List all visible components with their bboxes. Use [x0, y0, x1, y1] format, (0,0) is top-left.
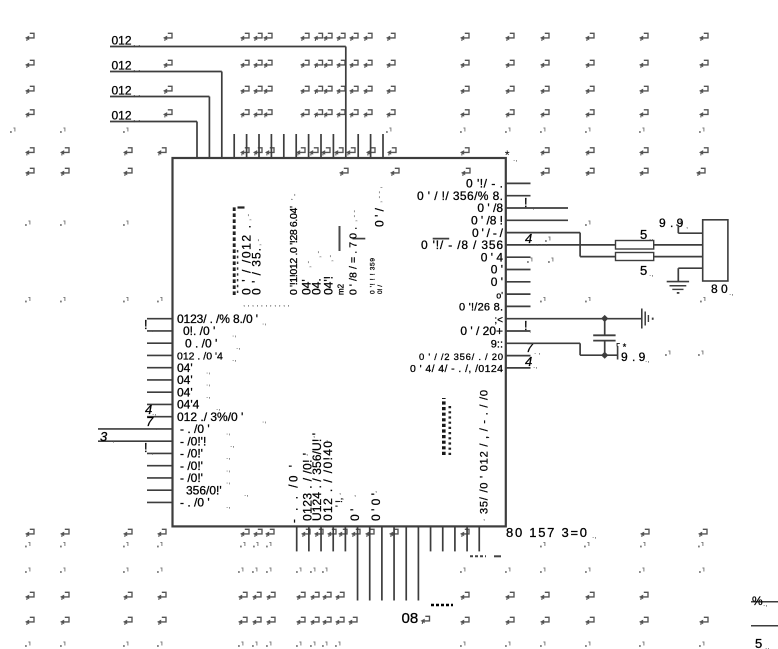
svg-text:,: ,	[506, 317, 508, 326]
overline fragment	[353, 238, 366, 240]
svg-text:.,: .,	[226, 477, 230, 486]
svg-text:0 ' / 20+: 0 ' / 20+	[460, 324, 503, 338]
svg-text:0! /: 0! /	[377, 285, 384, 294]
svg-text:.,: .,	[649, 269, 653, 278]
refdes label 80	[711, 282, 733, 297]
U1 internal column row4	[348, 227, 360, 295]
title block label 5	[755, 636, 769, 649]
svg-text:4: 4	[525, 231, 532, 246]
svg-text:0 '!1!012 .0 '!28 6.04': 0 '!1!012 .0 '!28 6.04'	[288, 206, 300, 295]
svg-text:, -: , -	[244, 214, 253, 221]
U1 internal column row3b	[310, 278, 324, 295]
junction node B	[601, 352, 608, 359]
IC U1 bottom pins	[297, 526, 480, 551]
wire J1 top stub	[678, 226, 702, 234]
svg-text:,: ,	[375, 485, 377, 494]
svg-text:,: ,	[506, 268, 508, 277]
pin number 4 (left)	[145, 402, 156, 417]
pin number 4 (right pin16)	[525, 354, 537, 370]
svg-text:,: ,	[506, 182, 508, 191]
svg-text:4: 4	[525, 354, 532, 369]
svg-text:012: 012	[112, 109, 132, 123]
svg-text:, - - ,: , - - ,	[375, 187, 384, 203]
wire pin12 to earth	[506, 318, 642, 320]
U1 internal column row5b	[377, 285, 384, 294]
IC U1 top pins	[234, 134, 383, 158]
wire net4	[110, 122, 197, 159]
U1 internal column row5c	[373, 207, 387, 227]
svg-text:- . . /0 ': - . . /0 '	[289, 465, 301, 523]
svg-text:,: ,	[506, 281, 508, 290]
svg-text:0 ': 0 '	[491, 275, 503, 289]
U1 bottom column c5	[334, 498, 344, 507]
svg-text:.,: .,	[206, 379, 210, 388]
net label 012 line4	[112, 109, 141, 124]
earth symbol (sideways)	[642, 309, 654, 329]
wire XTAL1 to C1	[506, 244, 616, 246]
U1 bottom column c4	[321, 441, 335, 521]
svg-text:0 ' / 35.: 0 ' / 35.	[250, 248, 264, 295]
U1 bottom column c7	[369, 493, 383, 521]
svg-text:.,: .,	[533, 361, 537, 370]
svg-text:, -: , -	[326, 255, 335, 262]
ground symbol (below J1)	[667, 282, 689, 294]
svg-text:, -: , -	[314, 251, 323, 258]
U1 bottom column c3	[310, 433, 324, 521]
svg-text:., . ,: ., . ,	[534, 238, 547, 247]
IC U1 left pins	[147, 319, 173, 503]
svg-text:0 '! ! ! 359: 0 '! ! ! 359	[370, 258, 377, 294]
svg-text:- . /0 ': - . /0 '	[180, 496, 210, 510]
svg-text:!: !	[524, 195, 528, 210]
gray comma row under columns	[243, 299, 290, 308]
svg-text:.,: .,	[206, 391, 210, 400]
svg-text:!: !	[524, 318, 528, 333]
wire XTAL-left A	[98, 428, 173, 430]
wire net1	[110, 47, 346, 159]
svg-text:5: 5	[640, 263, 647, 278]
svg-text:9: 9	[659, 216, 666, 230]
svg-text:o': o'	[496, 290, 503, 300]
svg-text:*: *	[505, 149, 510, 163]
IC U1 right pins	[506, 183, 568, 368]
svg-text:.,: .,	[645, 355, 649, 364]
svg-text:.,: .,	[110, 435, 114, 444]
pin number 7 (right pin15)	[526, 340, 541, 356]
svg-text:0 . /0 ': 0 . /0 '	[185, 336, 217, 350]
svg-text:.,: .,	[149, 324, 153, 333]
svg-text:.,: .,	[149, 447, 153, 456]
svg-text:,: ,	[313, 430, 315, 439]
svg-text:!: !	[144, 440, 148, 455]
svg-text:,: ,	[306, 448, 308, 457]
svg-text:' -: ' -	[290, 193, 299, 200]
svg-text:.,: .,	[592, 531, 596, 540]
svg-text:, -: , -	[304, 261, 313, 268]
U1 bottom column c6	[348, 509, 362, 521]
svg-text:5: 5	[755, 636, 762, 649]
svg-text:9: 9	[621, 350, 628, 364]
U1 bottom dense column	[444, 398, 450, 455]
IC U1 bottom bus pins	[358, 526, 419, 600]
svg-text:. ,: . ,	[534, 347, 541, 356]
label 9 . 9 (bottom)	[616, 342, 649, 364]
capacitor C1 (upper box)	[616, 241, 654, 250]
svg-text:0 ' / /2 356/ . / 20: 0 ' / /2 356/ . / 20	[419, 352, 503, 363]
svg-text:012: 012	[112, 34, 132, 48]
svg-text:,: ,	[339, 487, 341, 496]
svg-text:.,: .,	[649, 233, 653, 242]
svg-text:.,: .,	[513, 154, 517, 163]
wire J1 to ground	[678, 268, 702, 281]
svg-text:, -: , -	[254, 239, 263, 246]
marker * at U1 corner	[505, 149, 518, 164]
svg-text:.,: .,	[763, 599, 767, 608]
pin number ! (right pin3)	[524, 195, 534, 211]
gray bits above columns	[244, 187, 384, 268]
pin number ! (right pin13)	[524, 318, 531, 334]
svg-text:,: ,	[529, 325, 531, 334]
net label 012 line1	[112, 34, 141, 49]
U1 internal column row1 dense	[234, 206, 244, 295]
svg-text:.,: .,	[226, 428, 230, 437]
wire XTAL2 to C2	[506, 233, 616, 257]
svg-text:04'!: 04'!	[322, 276, 336, 295]
svg-text:.,: .,	[230, 440, 234, 449]
svg-text:,: ,	[506, 293, 508, 302]
svg-text:.,: .,	[262, 317, 266, 326]
svg-text:8 0: 8 0	[711, 282, 728, 296]
svg-text:,: ,	[506, 354, 508, 363]
svg-text:80 157 3=0: 80 157 3=0	[506, 525, 587, 540]
svg-text:,: ,	[506, 330, 508, 339]
U1 internal column row2	[288, 206, 300, 295]
svg-text:0 ' /8 / = . 7 0 .: 0 ' /8 / = . 7 0 .	[348, 227, 360, 295]
capacitor C3	[593, 335, 615, 340]
U1 internal column row3d	[337, 226, 346, 295]
part number 80 157 3=0	[506, 525, 596, 540]
U1 internal column row5a	[370, 258, 377, 294]
U1 bottom column c8	[479, 390, 491, 514]
svg-text:.,: .,	[729, 288, 733, 297]
svg-text:.,: .,	[232, 330, 236, 339]
svg-text:,: ,	[506, 194, 508, 203]
value label 5 (lower)	[640, 263, 653, 278]
capacitor C2 (lower box)	[616, 253, 654, 261]
svg-text:, - -: , - -	[350, 210, 359, 222]
svg-text:%: %	[752, 594, 763, 608]
title block line2	[751, 625, 778, 627]
svg-text:.,: .,	[232, 354, 236, 363]
tick marks under pin row	[470, 555, 501, 557]
svg-text:0 ' 0 ': 0 ' 0 '	[369, 493, 383, 521]
wire net3	[110, 97, 209, 159]
pin number ! (left pin12)	[144, 440, 153, 456]
IC U1 right pin labels	[410, 177, 508, 376]
svg-text:.,: .,	[262, 415, 266, 424]
svg-text:.,: .,	[226, 501, 230, 510]
svg-text:.,: .,	[244, 489, 248, 498]
svg-text:.,: .,	[765, 642, 769, 649]
svg-text:,: ,	[506, 305, 508, 314]
svg-text:.,: .,	[226, 464, 230, 473]
IC U1 body	[173, 158, 506, 526]
svg-text:3: 3	[100, 429, 108, 444]
svg-text:0 ': 0 '	[348, 509, 362, 521]
svg-text:,: ,	[506, 207, 508, 216]
label 9 . 9 (top)	[659, 216, 688, 230]
gray bits bottom columns	[306, 430, 485, 522]
IC U1 left pin labels	[177, 312, 266, 510]
svg-text:.,: .,	[236, 342, 240, 351]
svg-text:,: ,	[354, 489, 356, 498]
net label 012 line2	[112, 59, 141, 74]
pin number 3	[100, 429, 114, 444]
U1 bottom column c1	[289, 465, 301, 523]
svg-text:0 ' 4/ 4/ - . /, /0124: 0 ' 4/ 4/ - . /, /0124	[410, 363, 503, 375]
title block label %	[752, 594, 767, 608]
svg-text:,: ,	[326, 434, 328, 443]
svg-text:. 9: . 9	[632, 350, 646, 364]
connector J1	[703, 220, 728, 281]
svg-text:,: ,	[506, 244, 508, 253]
svg-text:. 9: . 9	[670, 216, 684, 230]
svg-text:.,: .,	[530, 202, 534, 211]
svg-text:012: 012	[112, 59, 132, 73]
U1 internal column row1b	[240, 225, 254, 295]
svg-text:, , , , , ,: , , , , , , , , , , ,	[243, 299, 290, 308]
svg-text:.,: .,	[206, 366, 210, 375]
tick marks near 08	[431, 604, 453, 607]
svg-text:,: ,	[506, 367, 508, 376]
svg-text:012 . / /0!40: 012 . / /0!40	[321, 441, 335, 521]
svg-text:m2: m2	[337, 283, 346, 295]
svg-text:012: 012	[112, 84, 132, 98]
svg-text:5: 5	[640, 227, 647, 242]
pin number ! (left pin2)	[144, 317, 153, 333]
pin number 7 (left)	[146, 414, 157, 431]
svg-text:.,: .,	[153, 422, 157, 431]
wire C2 to J1	[654, 256, 703, 258]
U1 internal column row1c	[250, 248, 264, 295]
wire C3 to node B	[604, 341, 606, 356]
value label 5 (upper)	[640, 227, 653, 242]
svg-text:08: 08	[402, 610, 419, 627]
svg-text:,: ,	[686, 221, 688, 230]
svg-text:,: ,	[506, 219, 508, 228]
wire net2	[110, 72, 222, 159]
net label 012 line3	[112, 84, 141, 99]
U1 internal column row3a	[300, 279, 314, 295]
wire C1 to J1	[654, 244, 703, 246]
svg-text:35/ /0 ' 012 / , / - . /: 35/ /0 ' 012 / , / - . / /0	[479, 390, 491, 514]
pin number 4 (right pin6)	[525, 231, 553, 263]
svg-text:,: ,	[483, 513, 485, 522]
U1 bottom column c2	[301, 453, 315, 521]
svg-text:' !,: ' !,	[334, 498, 344, 507]
svg-text:!: !	[144, 317, 148, 332]
svg-text:,: ,	[506, 342, 508, 351]
svg-text:.,: .,	[226, 452, 230, 461]
wire node A to C3	[604, 319, 606, 335]
svg-text:0 '!/26 8.: 0 '!/26 8.	[459, 302, 503, 314]
svg-text:7: 7	[526, 340, 534, 355]
overline active-low pin6	[433, 238, 450, 240]
svg-text:,: ,	[506, 231, 508, 240]
junction node A	[601, 315, 608, 322]
svg-text:,: ,	[506, 256, 508, 265]
net label 08	[402, 610, 430, 627]
wire XTAL-left B	[98, 440, 173, 442]
title block line1	[751, 601, 778, 603]
U1 internal column row3c	[322, 276, 336, 295]
wire pin14 run	[506, 343, 617, 355]
svg-text:9::: 9::	[491, 339, 503, 351]
terminal bar	[617, 346, 619, 360]
svg-text:0 ' /: 0 ' /	[373, 207, 387, 227]
